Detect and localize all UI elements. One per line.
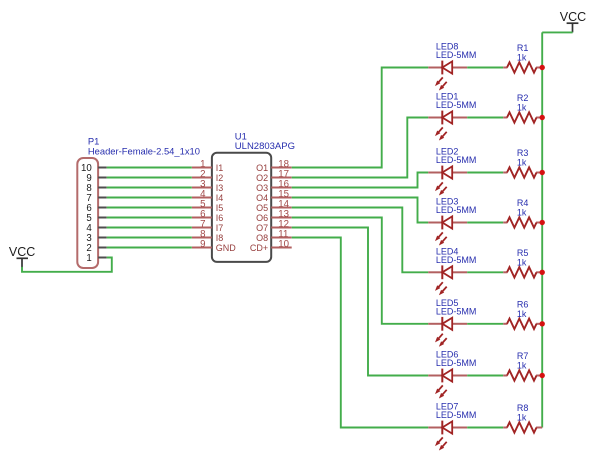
U1 pin 11 (O8) <box>256 229 292 243</box>
wire P1 pin 3 to U1 pin 8 <box>107 237 192 239</box>
svg-text:Header-Female-2.54_1x10: Header-Female-2.54_1x10 <box>88 145 200 156</box>
svg-text:LED-5MM: LED-5MM <box>436 255 477 265</box>
wire U1 O4 to LED3 <box>292 198 429 223</box>
junction R6 to VCC rail <box>540 321 545 326</box>
wire P1 pin 4 to U1 pin 7 <box>107 227 192 229</box>
resistor R6 <box>503 319 542 329</box>
LED LED1 <box>428 111 467 141</box>
svg-text:LED-5MM: LED-5MM <box>436 410 477 420</box>
svg-text:1k: 1k <box>517 53 527 63</box>
U1 pin 2 (I2) <box>192 169 224 183</box>
svg-text:1k: 1k <box>517 158 527 168</box>
svg-text:I6: I6 <box>216 213 224 223</box>
connector P1 body <box>77 158 98 268</box>
svg-text:I8: I8 <box>216 233 224 243</box>
U1 pin 12 (O7) <box>256 219 292 233</box>
connector P1 pin 2 <box>86 243 106 254</box>
svg-text:ULN2803APG: ULN2803APG <box>235 141 295 152</box>
wire LED7 to R8 <box>467 427 503 429</box>
connector P1 pin 10 <box>81 163 107 174</box>
wire P1 pin 1 to VCC <box>22 258 112 272</box>
LED LED8 <box>428 61 467 91</box>
wire U1 O8 to LED7 <box>292 238 429 428</box>
LED LED7 <box>428 421 467 451</box>
junction R3 to VCC rail <box>540 170 545 175</box>
resistor R3 <box>503 167 542 177</box>
svg-text:O4: O4 <box>256 193 268 203</box>
svg-text:O3: O3 <box>256 183 268 193</box>
resistor R7 <box>503 370 542 380</box>
wire LED8 to R1 <box>467 67 503 69</box>
resistor R5 <box>503 267 542 277</box>
wire U1 O1 to LED8 <box>292 68 429 168</box>
U1 pin 14 (O5) <box>256 199 292 213</box>
wire U1 O7 to LED6 <box>292 228 429 376</box>
svg-text:1: 1 <box>86 253 91 264</box>
wire LED3 to R4 <box>467 222 503 224</box>
wire U1 O3 to LED2 <box>292 173 429 188</box>
svg-text:9: 9 <box>200 239 205 250</box>
svg-text:1k: 1k <box>517 208 527 218</box>
power VCC (left) <box>9 245 35 267</box>
connector P1 pin 7 <box>86 193 106 204</box>
wire LED2 to R3 <box>467 172 503 174</box>
wire P1 pin 10 to U1 pin 1 <box>107 167 192 169</box>
svg-text:I7: I7 <box>216 223 224 233</box>
wire P1 pin 2 to U1 pin 9 <box>107 247 192 249</box>
LED LED3 <box>428 216 467 246</box>
svg-text:LED-5MM: LED-5MM <box>436 306 477 316</box>
resistor R1 <box>503 62 542 72</box>
wire VCC to rail <box>542 31 572 33</box>
wire U1 O2 to LED1 <box>292 118 429 178</box>
wire VCC rail vertical <box>541 32 543 427</box>
wire P1 pin 8 to U1 pin 3 <box>107 187 192 189</box>
wire P1 pin 7 to U1 pin 4 <box>107 197 192 199</box>
svg-text:10: 10 <box>278 239 289 250</box>
svg-text:I2: I2 <box>216 173 224 183</box>
junction R4 to VCC rail <box>540 220 545 225</box>
svg-text:GND: GND <box>216 243 237 253</box>
U1 pin 18 (O1) <box>256 159 292 173</box>
wire LED4 to R5 <box>467 271 503 273</box>
LED LED6 <box>428 369 467 399</box>
power VCC (top right) <box>560 10 586 32</box>
U1 pin 6 (I6) <box>192 209 224 223</box>
LED LED4 <box>428 265 467 295</box>
svg-text:1k: 1k <box>517 361 527 371</box>
svg-text:LED-5MM: LED-5MM <box>436 155 477 165</box>
svg-text:LED-5MM: LED-5MM <box>436 50 477 60</box>
U1 pin 3 (I3) <box>192 179 224 193</box>
wire U1 O6 to LED5 <box>292 218 429 324</box>
svg-text:VCC: VCC <box>560 10 586 24</box>
svg-text:LED-5MM: LED-5MM <box>436 358 477 368</box>
connector P1 pin 3 <box>86 233 106 244</box>
U1 pin 10 (CD+) <box>250 239 292 253</box>
svg-text:O7: O7 <box>256 223 268 233</box>
IC U1 ULN2803APG body <box>212 153 271 262</box>
wire P1 pin 6 to U1 pin 5 <box>107 207 192 209</box>
svg-text:O5: O5 <box>256 203 268 213</box>
wire P1 pin 9 to U1 pin 2 <box>107 177 192 179</box>
wire LED1 to R2 <box>467 117 503 119</box>
U1 pin 16 (O3) <box>256 179 292 193</box>
U1 pin 15 (O4) <box>256 189 292 203</box>
svg-text:1k: 1k <box>517 309 527 319</box>
U1 pin 5 (I5) <box>192 199 224 213</box>
svg-text:U1: U1 <box>235 131 247 142</box>
wire LED5 to R6 <box>467 323 503 325</box>
svg-text:LED-5MM: LED-5MM <box>436 100 477 110</box>
connector P1 pin 8 <box>86 183 106 194</box>
svg-text:I3: I3 <box>216 183 224 193</box>
resistor R4 <box>503 217 542 227</box>
connector P1 pin 4 <box>86 223 106 234</box>
svg-text:O2: O2 <box>256 173 268 183</box>
svg-text:1k: 1k <box>517 257 527 267</box>
U1 pin 9 (GND) <box>192 239 237 253</box>
connector P1 pin 5 <box>86 213 106 224</box>
U1 pin 4 (I4) <box>192 189 224 203</box>
U1 pin 17 (O2) <box>256 169 292 183</box>
U1 pin 7 (I7) <box>192 219 224 233</box>
LED LED5 <box>428 317 467 347</box>
U1 pin 1 (I1) <box>192 159 224 173</box>
connector P1 pin 6 <box>86 203 106 214</box>
junction R7 to VCC rail <box>540 373 545 378</box>
svg-text:CD+: CD+ <box>250 243 268 253</box>
svg-text:O1: O1 <box>256 163 268 173</box>
connector P1 pin 9 <box>86 173 106 184</box>
svg-text:VCC: VCC <box>9 245 35 259</box>
svg-text:I1: I1 <box>216 163 224 173</box>
junction R1 to VCC rail <box>540 65 545 70</box>
svg-text:LED-5MM: LED-5MM <box>436 205 477 215</box>
LED LED2 <box>428 166 467 196</box>
wire P1 pin 5 to U1 pin 6 <box>107 217 192 219</box>
svg-text:I5: I5 <box>216 203 224 213</box>
svg-text:I4: I4 <box>216 193 224 203</box>
svg-text:O6: O6 <box>256 213 268 223</box>
junction R2 to VCC rail <box>540 115 545 120</box>
junction R5 to VCC rail <box>540 270 545 275</box>
svg-text:1k: 1k <box>517 103 527 113</box>
resistor R2 <box>503 112 542 122</box>
svg-text:O8: O8 <box>256 233 268 243</box>
U1 pin 13 (O6) <box>256 209 292 223</box>
wire U1 O5 to LED4 <box>292 208 429 273</box>
resistor R8 <box>503 422 542 432</box>
U1 pin 8 (I8) <box>192 229 224 243</box>
connector P1 pin 1 <box>86 253 106 264</box>
wire LED6 to R7 <box>467 375 503 377</box>
svg-text:1k: 1k <box>517 413 527 423</box>
